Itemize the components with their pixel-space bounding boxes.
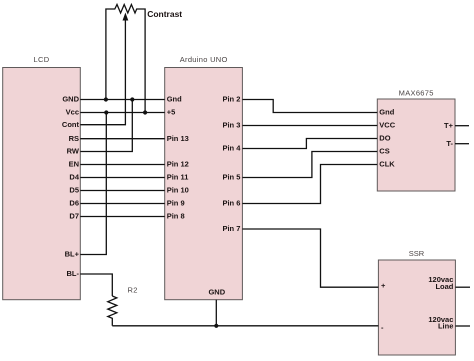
wire MAX6675 T- stub: [455, 143, 469, 145]
svg-text:+: +: [381, 281, 386, 290]
svg-text:Gnd: Gnd: [167, 95, 182, 104]
wire MAX6675 T+ stub: [455, 125, 469, 127]
svg-text:BL-: BL-: [67, 269, 80, 278]
svg-text:Vcc: Vcc: [66, 108, 79, 117]
wire SSR 120vac Load stub: [455, 286, 470, 288]
wire LCD D5 to Arduino Pin 10: [80, 190, 164, 192]
wire Arduino Pin 4 to MAX6675 DO: [242, 139, 377, 149]
svg-text:CLK: CLK: [379, 160, 395, 169]
svg-text:MAX6675: MAX6675: [399, 89, 434, 98]
svg-text:Pin 8: Pin 8: [167, 212, 185, 221]
wire LCD RS to Arduino Pin 13: [80, 138, 164, 140]
wire LCD D4 to Arduino Pin 11: [80, 177, 164, 179]
wire ground bus: [112, 325, 378, 327]
wire Arduino Pin 3 to MAX6675 VCC: [242, 125, 377, 127]
svg-text:Contrast: Contrast: [147, 9, 182, 19]
svg-text:Pin 2: Pin 2: [222, 95, 240, 104]
wire LCD EN to Arduino Pin 12: [80, 164, 164, 166]
svg-text:Load: Load: [435, 282, 453, 291]
wire LCD RW to GND net: [80, 100, 132, 152]
svg-text:D7: D7: [69, 212, 79, 221]
svg-text:LCD: LCD: [34, 55, 50, 64]
svg-text:Arduino UNO: Arduino UNO: [180, 55, 228, 64]
svg-text:RS: RS: [69, 134, 79, 143]
svg-text:Pin 5: Pin 5: [222, 173, 240, 182]
junction pot left to GND net: [104, 97, 108, 101]
svg-text:GND: GND: [208, 288, 225, 297]
svg-text:SSR: SSR: [409, 249, 425, 258]
wire Arduino Pin 7 to SSR +: [242, 229, 378, 287]
wire LCD D7 to Arduino Pin 8: [80, 216, 164, 218]
svg-text:Pin 12: Pin 12: [167, 160, 189, 169]
junction RW to GND net: [130, 97, 134, 101]
wire Arduino Pin 2 to MAX6675 Gnd: [242, 100, 377, 113]
svg-text:CS: CS: [379, 147, 389, 156]
svg-text:BL+: BL+: [65, 250, 80, 259]
svg-text:Pin 11: Pin 11: [167, 173, 189, 182]
svg-text:Pin 7: Pin 7: [222, 224, 240, 233]
junction ground bus: [214, 324, 218, 328]
svg-text:R2: R2: [128, 286, 138, 295]
svg-text:T-: T-: [446, 139, 453, 148]
IC U4 SSR box: [378, 260, 455, 355]
potentiometer R1 Contrast: [106, 5, 145, 113]
wiper arrow of potentiometer: [124, 19, 126, 21]
svg-text:D4: D4: [69, 173, 79, 182]
junction pot right to +5 net: [143, 110, 147, 114]
svg-text:Pin 10: Pin 10: [167, 186, 189, 195]
svg-text:Gnd: Gnd: [379, 108, 394, 117]
wire LCD BL- to resistor R2: [80, 274, 112, 296]
wire LCD GND to Arduino Gnd: [80, 99, 164, 101]
wire SSR 120vac Line stub: [455, 325, 470, 327]
svg-text:D6: D6: [69, 199, 79, 208]
svg-text:GND: GND: [62, 95, 79, 104]
wire Arduino GND to ground bus: [215, 300, 217, 326]
resistor R2: [108, 296, 117, 326]
junction BL+ to +5 net: [104, 110, 108, 114]
svg-text:Line: Line: [438, 321, 453, 330]
svg-text:EN: EN: [69, 160, 79, 169]
wire Arduino Pin 5 to MAX6675 CS: [242, 152, 377, 178]
svg-text:+5: +5: [167, 108, 176, 117]
IC U2 Arduino UNO box: [165, 68, 243, 300]
svg-text:DO: DO: [379, 134, 390, 143]
svg-text:D5: D5: [69, 186, 79, 195]
svg-text:Pin 13: Pin 13: [167, 134, 189, 143]
wire LCD BL+ to +5 net: [80, 113, 106, 255]
IC U1 LCD box: [3, 68, 81, 300]
svg-text:VCC: VCC: [379, 121, 395, 130]
svg-text:Pin 9: Pin 9: [167, 199, 185, 208]
wire LCD Cont to pot wiper: [80, 21, 125, 125]
IC U3 MAX6675 box: [377, 99, 455, 191]
svg-text:Pin 6: Pin 6: [222, 199, 240, 208]
svg-text:Pin 3: Pin 3: [222, 121, 240, 130]
svg-text:Cont: Cont: [62, 120, 80, 129]
svg-text:Pin 4: Pin 4: [222, 144, 241, 153]
svg-text:RW: RW: [67, 147, 80, 156]
wire LCD D6 to Arduino Pin 9: [80, 203, 164, 205]
wire LCD Vcc to Arduino +5: [80, 112, 164, 114]
svg-text:T+: T+: [444, 121, 454, 130]
wire Arduino Pin 6 to MAX6675 CLK: [242, 165, 377, 204]
